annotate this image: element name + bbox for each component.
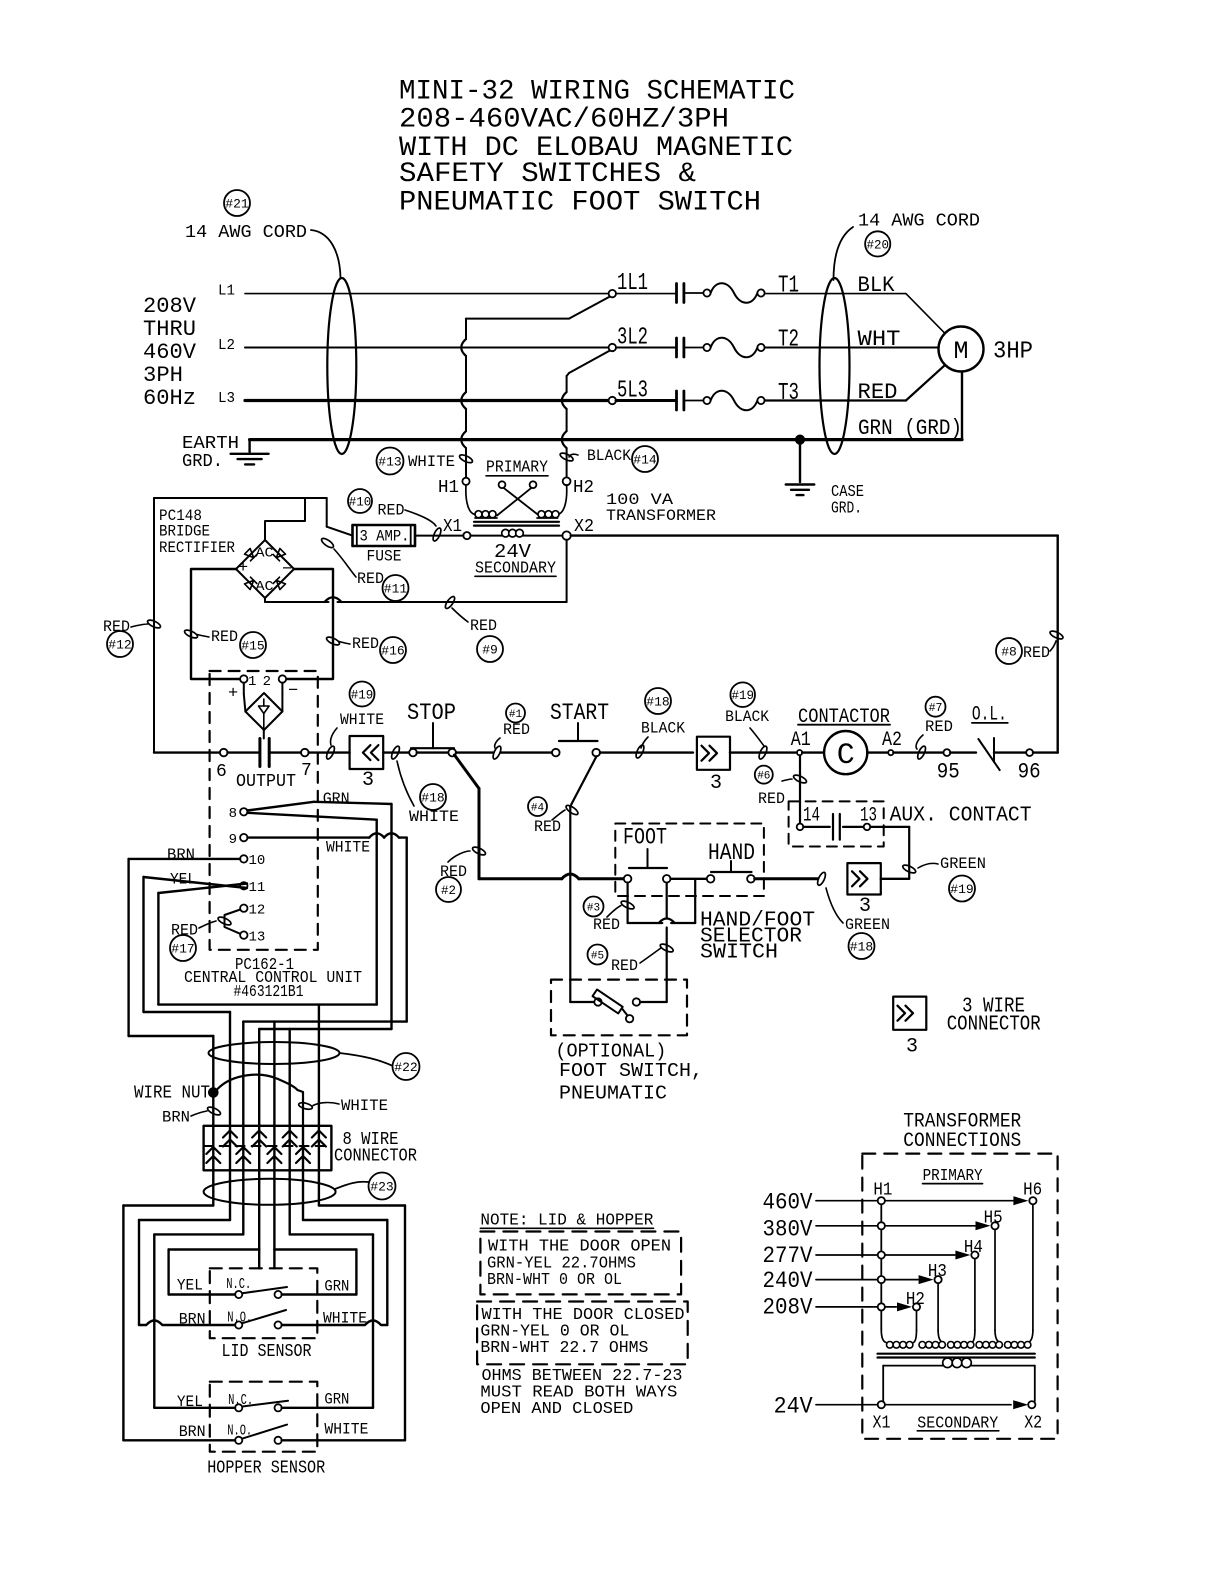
- svg-text:#9: #9: [482, 643, 498, 658]
- svg-text:BRN: BRN: [162, 1109, 190, 1127]
- svg-text:#6: #6: [757, 771, 770, 783]
- svg-text:WHITE: WHITE: [324, 1421, 368, 1439]
- svg-text:T2: T2: [778, 327, 799, 354]
- svg-text:10: 10: [249, 853, 266, 869]
- svg-text:BLK: BLK: [858, 273, 896, 298]
- svg-text:13: 13: [249, 930, 266, 946]
- svg-text:GRD.: GRD.: [831, 500, 862, 519]
- svg-text:#19: #19: [950, 882, 973, 897]
- svg-text:YEL: YEL: [177, 1277, 203, 1295]
- svg-text:WHT: WHT: [858, 327, 901, 352]
- svg-text:H1: H1: [438, 478, 459, 498]
- svg-text:277V: 277V: [763, 1243, 813, 1269]
- svg-text:RED: RED: [611, 957, 638, 975]
- svg-text:PRIMARY: PRIMARY: [486, 459, 548, 478]
- svg-text:#18: #18: [421, 791, 444, 806]
- svg-text:12: 12: [249, 903, 266, 919]
- svg-text:RED: RED: [357, 570, 384, 588]
- svg-text:C: C: [837, 739, 855, 773]
- svg-text:#7: #7: [929, 702, 943, 715]
- svg-text:2: 2: [263, 674, 271, 690]
- svg-text:#16: #16: [381, 644, 404, 659]
- svg-text:CONNECTIONS: CONNECTIONS: [903, 1130, 1021, 1153]
- svg-text:X2: X2: [574, 517, 594, 537]
- svg-text:#23: #23: [370, 1180, 393, 1195]
- svg-text:X1: X1: [443, 517, 462, 537]
- svg-text:H6: H6: [1023, 1180, 1042, 1200]
- svg-text:GRN: GRN: [324, 1277, 349, 1295]
- svg-text:H4: H4: [964, 1238, 983, 1258]
- svg-text:#20: #20: [866, 238, 889, 252]
- svg-text:#18: #18: [646, 695, 669, 710]
- svg-text:YEL: YEL: [177, 1393, 203, 1411]
- svg-text:240V: 240V: [763, 1268, 813, 1294]
- svg-text:RED: RED: [1023, 644, 1050, 662]
- svg-text:460V: 460V: [763, 1189, 813, 1215]
- svg-text:#19: #19: [351, 689, 374, 703]
- svg-text:BRN: BRN: [167, 846, 195, 864]
- svg-text:TRANSFORMER: TRANSFORMER: [606, 507, 716, 525]
- svg-text:3: 3: [710, 772, 722, 795]
- svg-text:#4: #4: [531, 802, 545, 814]
- svg-text:14: 14: [803, 805, 820, 828]
- svg-text:THRU: THRU: [143, 317, 196, 342]
- svg-text:3: 3: [906, 1036, 918, 1059]
- svg-text:#3: #3: [587, 902, 600, 914]
- svg-text:#8: #8: [1001, 645, 1017, 660]
- svg-text:EARTH: EARTH: [182, 434, 239, 454]
- svg-text:BLACK: BLACK: [725, 708, 769, 726]
- svg-text:1: 1: [248, 674, 256, 690]
- svg-text:A1: A1: [791, 729, 811, 752]
- svg-text:GRN: GRN: [324, 1391, 349, 1409]
- svg-text:H2: H2: [573, 478, 594, 498]
- svg-text:GRD.: GRD.: [182, 452, 223, 472]
- svg-text:OUTPUT: OUTPUT: [236, 771, 296, 792]
- svg-text:GREEN: GREEN: [845, 916, 890, 934]
- svg-text:208V: 208V: [763, 1295, 813, 1321]
- svg-text:CONNECTOR: CONNECTOR: [334, 1147, 417, 1167]
- svg-text:FOOT: FOOT: [623, 825, 667, 851]
- svg-text:−: −: [282, 561, 292, 580]
- svg-text:GRN (GRD): GRN (GRD): [858, 416, 962, 441]
- svg-text:−: −: [288, 682, 298, 701]
- svg-text:#11: #11: [384, 582, 408, 597]
- svg-text:1L1: 1L1: [617, 270, 648, 297]
- svg-text:H1: H1: [873, 1180, 892, 1200]
- svg-text:BLACK: BLACK: [641, 720, 685, 738]
- svg-text:FUSE: FUSE: [367, 548, 402, 566]
- svg-text:PNEUMATIC: PNEUMATIC: [559, 1083, 667, 1105]
- svg-text:BRN: BRN: [179, 1311, 206, 1329]
- svg-text:WHITE: WHITE: [326, 839, 370, 857]
- svg-text:3 AMP.: 3 AMP.: [360, 528, 410, 546]
- svg-text:HOPPER SENSOR: HOPPER SENSOR: [207, 1459, 325, 1479]
- svg-text:LID SENSOR: LID SENSOR: [222, 1342, 312, 1362]
- svg-text:RED: RED: [378, 502, 405, 520]
- svg-text:RECTIFIER: RECTIFIER: [159, 539, 235, 557]
- svg-text:AC: AC: [256, 580, 274, 595]
- svg-text:L1: L1: [218, 284, 235, 300]
- svg-text:#1: #1: [509, 709, 523, 721]
- svg-text:#14: #14: [633, 453, 657, 468]
- svg-text:7: 7: [301, 761, 312, 781]
- svg-text:L3: L3: [218, 391, 235, 407]
- svg-text:M: M: [953, 337, 968, 366]
- svg-text:SAFETY SWITCHES &: SAFETY SWITCHES &: [399, 159, 696, 190]
- svg-text:BLACK: BLACK: [587, 447, 631, 465]
- svg-text:FOOT SWITCH,: FOOT SWITCH,: [559, 1060, 703, 1082]
- svg-text:START: START: [550, 700, 609, 726]
- svg-text:H3: H3: [928, 1262, 947, 1282]
- svg-text:WHITE: WHITE: [408, 453, 455, 471]
- svg-text:#15: #15: [241, 639, 264, 654]
- svg-text:WIRE NUT: WIRE NUT: [134, 1084, 210, 1104]
- svg-text:208V: 208V: [143, 294, 197, 319]
- svg-text:#10: #10: [349, 496, 372, 510]
- svg-text:#2: #2: [441, 884, 456, 898]
- svg-text:6: 6: [216, 762, 227, 782]
- svg-text:RED: RED: [470, 617, 497, 635]
- svg-text:#5: #5: [591, 950, 604, 962]
- svg-text:X2: X2: [1024, 1413, 1042, 1433]
- svg-text:60Hz: 60Hz: [143, 386, 196, 411]
- svg-text:+: +: [238, 559, 248, 578]
- svg-text:3: 3: [859, 895, 871, 918]
- svg-text:SWITCH: SWITCH: [700, 942, 778, 965]
- svg-text:RED: RED: [925, 718, 953, 736]
- svg-text:L2: L2: [218, 338, 235, 354]
- svg-text:#19: #19: [731, 689, 754, 703]
- svg-text:3L2: 3L2: [617, 325, 648, 352]
- svg-text:H5: H5: [984, 1209, 1003, 1229]
- svg-text:RED: RED: [503, 721, 530, 739]
- svg-text:AUX. CONTACT: AUX. CONTACT: [890, 805, 1032, 828]
- svg-text:BRIDGE: BRIDGE: [159, 523, 210, 541]
- svg-text:96: 96: [1018, 760, 1041, 785]
- svg-text:STOP: STOP: [407, 700, 456, 726]
- svg-text:AC: AC: [256, 547, 274, 562]
- svg-text:#12: #12: [108, 638, 131, 653]
- svg-text:RED: RED: [858, 380, 898, 405]
- svg-text:BRN-WHT 0 OR OL: BRN-WHT 0 OR OL: [487, 1271, 622, 1290]
- svg-text:RED: RED: [211, 628, 238, 646]
- svg-text:WHITE: WHITE: [323, 1309, 367, 1327]
- svg-text:GRN: GRN: [323, 790, 350, 808]
- svg-text:T1: T1: [778, 273, 799, 300]
- svg-text:9: 9: [229, 832, 237, 848]
- svg-text:WHITE: WHITE: [340, 711, 384, 729]
- svg-text:CONNECTOR: CONNECTOR: [947, 1014, 1041, 1037]
- svg-text:14 AWG CORD: 14 AWG CORD: [858, 211, 980, 232]
- svg-text:RED: RED: [352, 635, 379, 653]
- svg-text:RED: RED: [593, 916, 620, 934]
- svg-text:A2: A2: [882, 729, 902, 752]
- svg-text:RED: RED: [758, 790, 785, 808]
- svg-text:PNEUMATIC FOOT SWITCH: PNEUMATIC FOOT SWITCH: [399, 187, 761, 218]
- svg-text:11: 11: [249, 880, 266, 896]
- svg-text:MINI-32 WIRING SCHEMATIC: MINI-32 WIRING SCHEMATIC: [399, 77, 795, 108]
- svg-text:3PH: 3PH: [143, 363, 183, 388]
- svg-text:#18: #18: [850, 940, 873, 955]
- svg-text:WHITE: WHITE: [341, 1097, 388, 1115]
- svg-text:GREEN: GREEN: [940, 855, 986, 873]
- svg-text:H2: H2: [906, 1290, 925, 1310]
- svg-text:#21: #21: [225, 197, 249, 212]
- svg-text:3: 3: [362, 769, 374, 792]
- svg-text:460V: 460V: [143, 340, 197, 365]
- svg-text:RED: RED: [534, 818, 561, 836]
- svg-text:X1: X1: [873, 1413, 891, 1433]
- svg-text:14 AWG CORD: 14 AWG CORD: [185, 222, 307, 243]
- svg-text:WHITE: WHITE: [409, 808, 459, 826]
- svg-text:380V: 380V: [763, 1216, 813, 1242]
- svg-text:#22: #22: [394, 1060, 417, 1075]
- svg-text:24V: 24V: [774, 1394, 813, 1420]
- svg-text:8: 8: [229, 806, 237, 822]
- svg-text:BRN-WHT 22.7 OHMS: BRN-WHT 22.7 OHMS: [480, 1339, 648, 1358]
- svg-text:#463121B1: #463121B1: [234, 983, 304, 1002]
- svg-text:#17: #17: [171, 942, 194, 957]
- svg-text:OPEN AND CLOSED: OPEN AND CLOSED: [480, 1400, 633, 1419]
- svg-text:T3: T3: [778, 380, 799, 407]
- svg-text:#13: #13: [378, 455, 401, 470]
- svg-text:3HP: 3HP: [993, 339, 1033, 366]
- svg-text:208-460VAC/60HZ/3PH: 208-460VAC/60HZ/3PH: [399, 105, 729, 136]
- svg-text:BRN: BRN: [179, 1423, 206, 1441]
- svg-text:5L3: 5L3: [617, 378, 648, 405]
- svg-text:95: 95: [937, 760, 960, 785]
- svg-text:+: +: [228, 685, 238, 704]
